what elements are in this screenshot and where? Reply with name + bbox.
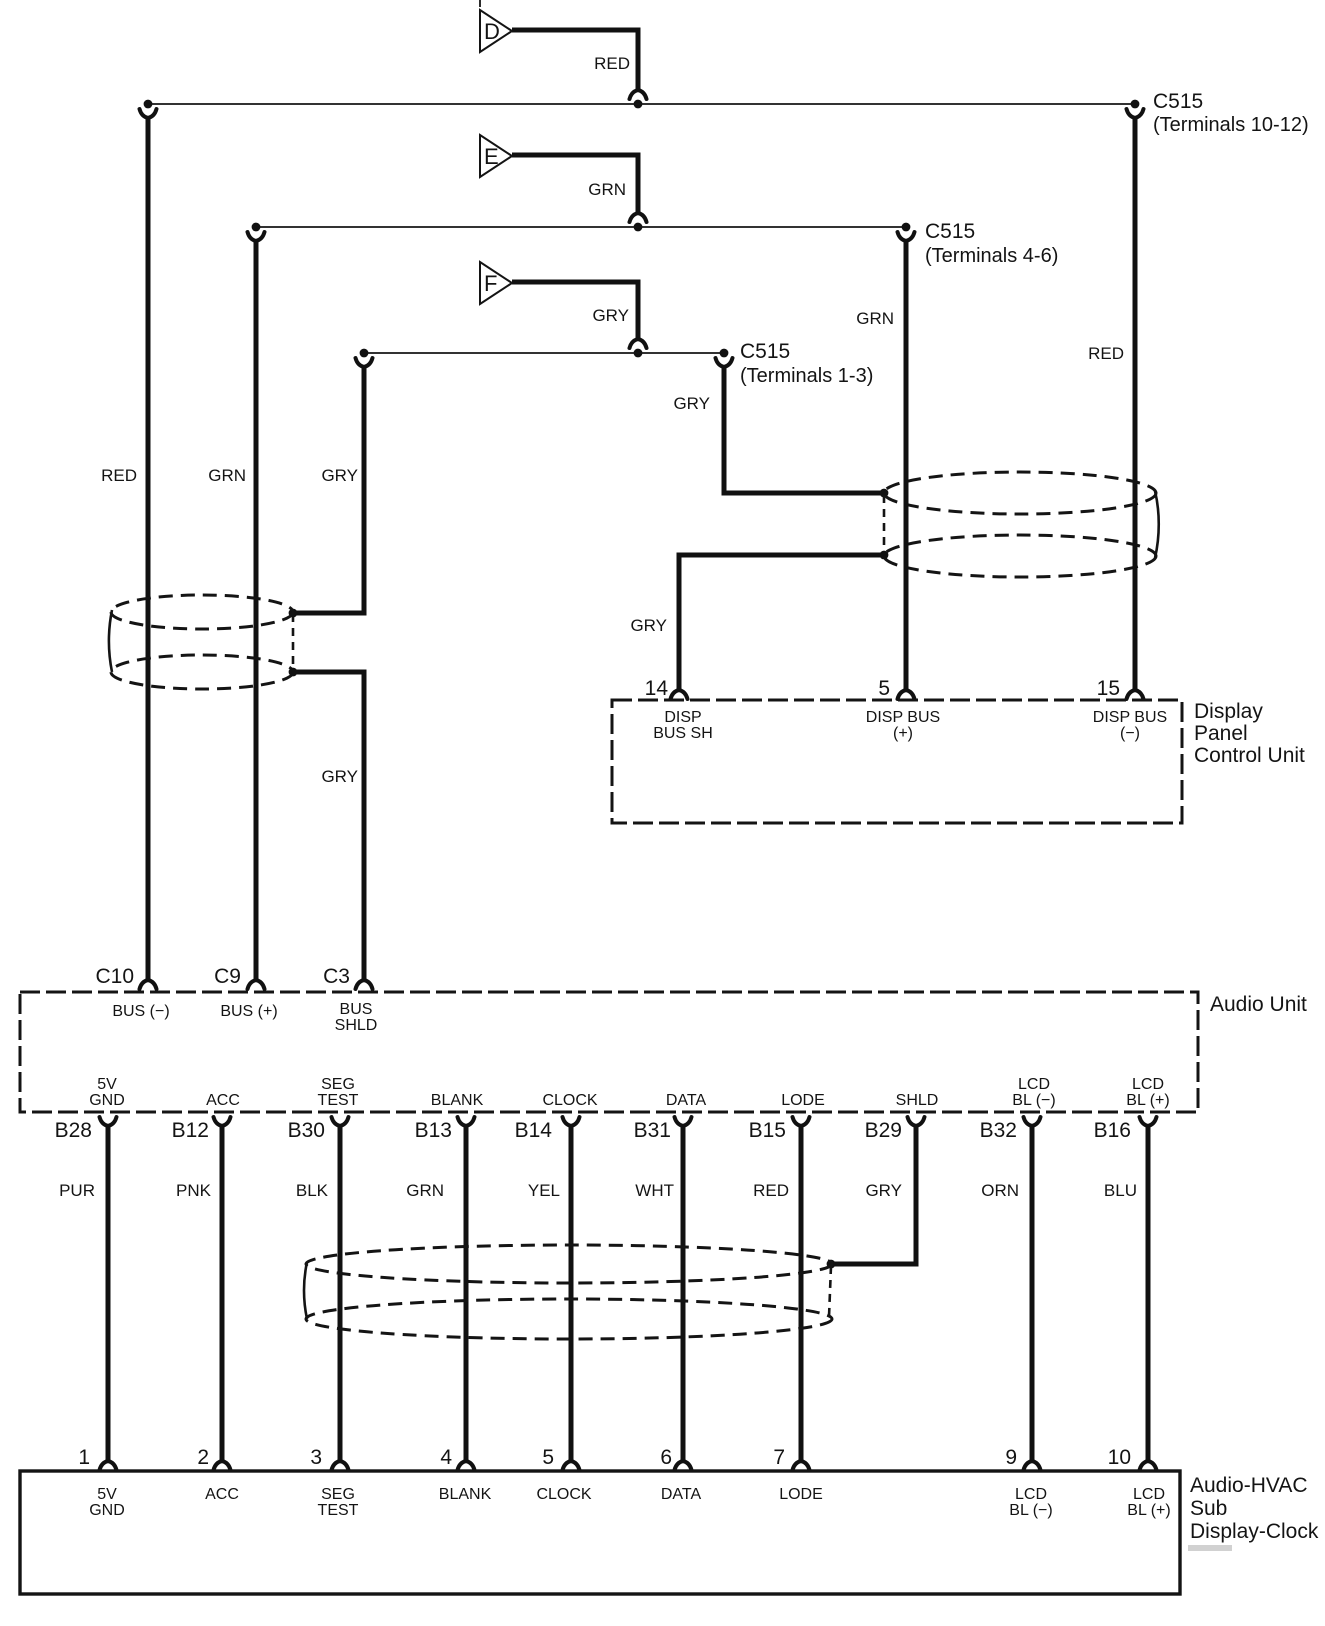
svg-text:DISP BUS: DISP BUS	[866, 709, 940, 726]
wire GRY from left shield to audio unit C3	[293, 672, 364, 979]
junction dot at left shield top right	[289, 609, 298, 618]
shield symbol right: bottom ellipse	[884, 535, 1156, 577]
junction dot D on bus line 1	[634, 100, 643, 109]
terminal cup at pin 2	[214, 1461, 231, 1470]
pin label DISP BUS SH	[653, 709, 713, 742]
shield symbol right: top ellipse	[884, 472, 1156, 514]
svg-text:GRY: GRY	[630, 616, 667, 635]
terminal cup at B12	[214, 1117, 231, 1126]
terminal cup at B29	[908, 1117, 925, 1126]
terminal cup at end of F wire	[630, 339, 647, 348]
node dot left end of bus line 2	[252, 223, 261, 232]
svg-text:DATA: DATA	[661, 1486, 702, 1503]
wire GRN from bus line 2 to audio unit C9	[254, 242, 259, 979]
svg-text:LODE: LODE	[779, 1486, 823, 1503]
pin label BUS SHLD	[335, 1001, 378, 1034]
shield symbol lower: solid left cap	[304, 1262, 307, 1319]
terminal cup below left end of bus line 2	[248, 232, 265, 241]
terminal cup at C9 entry	[248, 980, 265, 989]
label C515 (Terminals 1-3)	[740, 340, 873, 387]
wire GRN from bus line 2 to display pin 5	[904, 242, 909, 689]
svg-text:ACC: ACC	[205, 1486, 239, 1503]
pin label LCD BL (-)	[1012, 1076, 1055, 1109]
svg-text:9: 9	[1005, 1446, 1017, 1469]
pin label 5V GND (lower)	[89, 1486, 125, 1519]
svg-text:LODE: LODE	[781, 1092, 825, 1109]
terminal cup at B13	[458, 1117, 475, 1126]
wire YEL from B14 to pin 5	[569, 1126, 574, 1460]
svg-text:SHLD: SHLD	[896, 1092, 939, 1109]
svg-text:Audio-HVAC: Audio-HVAC	[1190, 1474, 1308, 1497]
svg-text:B32: B32	[980, 1119, 1017, 1142]
svg-text:TEST: TEST	[318, 1502, 359, 1519]
off-page arrow connector D	[480, 10, 512, 52]
terminal cup at end of E wire	[630, 213, 647, 222]
wire BLK from B30 to pin 3	[338, 1126, 343, 1460]
svg-text:RED: RED	[1088, 344, 1124, 363]
pin label DISP BUS (+)	[866, 709, 940, 742]
svg-text:Sub: Sub	[1190, 1497, 1227, 1520]
svg-text:ACC: ACC	[206, 1092, 240, 1109]
svg-text:SEG: SEG	[321, 1486, 355, 1503]
svg-text:LCD: LCD	[1015, 1486, 1047, 1503]
svg-text:B31: B31	[634, 1119, 671, 1142]
label C515 (Terminals 4-6)	[925, 220, 1058, 267]
terminal cup at pin 7	[793, 1461, 810, 1470]
svg-text:GRY: GRY	[321, 466, 358, 485]
svg-text:F: F	[484, 271, 497, 296]
svg-text:BLK: BLK	[296, 1181, 329, 1200]
node dot left end of bus line 1	[144, 100, 153, 109]
wire GRY from bus line 3 right end to right shield	[724, 368, 884, 493]
shield symbol lower: bottom ellipse	[306, 1299, 832, 1339]
svg-text:BUS (−): BUS (−)	[112, 1003, 169, 1020]
terminal cup at pin 1	[100, 1461, 117, 1470]
svg-text:GND: GND	[89, 1092, 125, 1109]
svg-text:GRN: GRN	[208, 466, 246, 485]
svg-text:Audio Unit: Audio Unit	[1210, 993, 1307, 1016]
svg-text:(Terminals 1-3): (Terminals 1-3)	[740, 365, 873, 387]
svg-text:ORN: ORN	[981, 1181, 1019, 1200]
svg-text:GRY: GRY	[592, 306, 629, 325]
svg-text:5V: 5V	[97, 1076, 117, 1093]
svg-text:5: 5	[878, 677, 890, 700]
svg-text:Display: Display	[1194, 700, 1263, 723]
svg-text:TEST: TEST	[318, 1092, 359, 1109]
pin label LCD BL (+)	[1126, 1076, 1169, 1109]
terminal cup at B31	[675, 1117, 692, 1126]
wire ORN from B32 to pin 9	[1030, 1126, 1035, 1460]
svg-text:CLOCK: CLOCK	[542, 1092, 597, 1109]
wire RED from bus line 1 to audio unit C10	[146, 119, 151, 979]
wire PNK from B12 to pin 2	[220, 1126, 225, 1460]
svg-text:5: 5	[542, 1446, 554, 1469]
svg-text:GRN: GRN	[856, 309, 894, 328]
pin label SEG TEST (lower)	[318, 1486, 359, 1519]
svg-text:BUS (+): BUS (+)	[220, 1003, 277, 1020]
svg-text:BL (+): BL (+)	[1127, 1502, 1170, 1519]
svg-text:B13: B13	[415, 1119, 452, 1142]
svg-text:BLANK: BLANK	[439, 1486, 492, 1503]
svg-text:(Terminals 4-6): (Terminals 4-6)	[925, 245, 1058, 267]
svg-text:DISP: DISP	[664, 709, 701, 726]
off-page arrow connector E	[480, 135, 512, 177]
wire GRY from arrow F	[512, 282, 638, 338]
terminal cup at pin 5	[563, 1461, 580, 1470]
terminal cup at pin 9	[1024, 1461, 1041, 1470]
svg-text:BL (−): BL (−)	[1009, 1502, 1052, 1519]
shield symbol left: top ellipse	[111, 595, 293, 629]
svg-text:C515: C515	[925, 220, 975, 243]
wire GRN from B13 to pin 4	[464, 1126, 469, 1460]
wire RED from arrow D	[512, 30, 638, 89]
stub line above arrow D	[479, 0, 481, 7]
pin label SEG TEST	[318, 1076, 359, 1109]
svg-text:BL (+): BL (+)	[1126, 1092, 1169, 1109]
wire WHT from B31 to pin 6	[681, 1126, 686, 1460]
svg-text:(Terminals 10-12): (Terminals 10-12)	[1153, 114, 1309, 136]
svg-text:PNK: PNK	[176, 1181, 212, 1200]
svg-text:LCD: LCD	[1018, 1076, 1050, 1093]
off-page arrow connector F	[480, 262, 512, 304]
svg-text:C10: C10	[95, 965, 134, 988]
svg-text:WHT: WHT	[635, 1181, 674, 1200]
terminal cup at B14	[563, 1117, 580, 1126]
svg-text:2: 2	[197, 1446, 209, 1469]
svg-text:14: 14	[645, 677, 669, 700]
bus line 2 (C515 terminals 4-6)	[256, 226, 906, 228]
node dot right end of bus line 1	[1131, 100, 1140, 109]
svg-text:B28: B28	[55, 1119, 92, 1142]
terminal cup at display pin 14	[671, 690, 688, 699]
svg-text:15: 15	[1097, 677, 1120, 700]
svg-text:BLANK: BLANK	[431, 1092, 484, 1109]
terminal cup at display pin 5	[898, 690, 915, 699]
svg-text:C515: C515	[1153, 90, 1203, 113]
terminal cup at B16	[1140, 1117, 1157, 1126]
wire PUR from B28 to pin 1	[106, 1126, 111, 1460]
box name Display Panel Control Unit	[1194, 700, 1305, 767]
pin label 5V GND	[89, 1076, 125, 1109]
Audio-HVAC Sub Display-Clock box	[20, 1471, 1180, 1594]
svg-text:RED: RED	[753, 1181, 789, 1200]
shield symbol left: bottom ellipse	[111, 655, 293, 689]
svg-text:LCD: LCD	[1133, 1486, 1165, 1503]
bus line 1 (C515 terminals 10-12)	[148, 103, 1135, 105]
svg-text:DATA: DATA	[666, 1092, 707, 1109]
svg-text:BLU: BLU	[1104, 1181, 1137, 1200]
svg-text:B29: B29	[865, 1119, 902, 1142]
junction dot F on bus line 3	[634, 349, 643, 358]
svg-text:BUS: BUS	[340, 1001, 373, 1018]
svg-text:5V: 5V	[97, 1486, 117, 1503]
svg-text:SHLD: SHLD	[335, 1017, 378, 1034]
svg-text:GRN: GRN	[406, 1181, 444, 1200]
svg-text:GRY: GRY	[321, 767, 358, 786]
terminal cup at B30	[332, 1117, 349, 1126]
pin label DISP BUS (-)	[1093, 709, 1167, 742]
junction dot at lower shield right	[827, 1260, 836, 1269]
svg-text:B15: B15	[749, 1119, 786, 1142]
svg-text:RED: RED	[101, 466, 137, 485]
shield symbol left: solid left cap	[109, 610, 112, 672]
svg-text:4: 4	[440, 1446, 452, 1469]
node dot left end of bus line 3	[360, 349, 369, 358]
box name Audio-HVAC Sub Display-Clock	[1190, 1474, 1319, 1543]
terminal cup at B28	[100, 1117, 117, 1126]
node dot right end of bus line 3	[720, 349, 729, 358]
shield symbol lower: dashed right edge	[829, 1266, 831, 1317]
svg-text:B12: B12	[172, 1119, 209, 1142]
terminal cup at C3 entry	[356, 980, 373, 989]
shield symbol right: solid right cap	[1155, 491, 1159, 558]
svg-text:B30: B30	[288, 1119, 325, 1142]
svg-text:CLOCK: CLOCK	[536, 1486, 591, 1503]
junction dot at left shield bottom right	[289, 668, 298, 677]
svg-text:RED: RED	[594, 54, 630, 73]
svg-text:Panel: Panel	[1194, 722, 1248, 745]
wire GRY from B29 to lower shield	[831, 1126, 916, 1264]
wire RED from bus line 1 to display pin 15	[1133, 119, 1138, 689]
faint scan artifact under Display-Clock	[1188, 1545, 1232, 1551]
Display Panel Control Unit box	[612, 700, 1182, 823]
svg-text:YEL: YEL	[528, 1181, 560, 1200]
terminal cup below left end of bus line 3	[356, 358, 373, 367]
svg-text:10: 10	[1108, 1446, 1131, 1469]
svg-text:GRY: GRY	[865, 1181, 902, 1200]
svg-text:1: 1	[78, 1446, 90, 1469]
terminal cup below right end of bus line 1	[1127, 109, 1144, 118]
junction dot at right shield top left	[880, 489, 889, 498]
svg-text:GND: GND	[89, 1502, 125, 1519]
shield symbol left: dashed right edge	[292, 614, 295, 671]
terminal cup below right end of bus line 2	[898, 232, 915, 241]
shield symbol right: dashed left edge	[883, 495, 886, 553]
terminal cup below right end of bus line 3	[716, 358, 733, 367]
svg-text:D: D	[484, 19, 500, 44]
wire GRN from arrow E	[512, 155, 638, 212]
svg-text:C9: C9	[214, 965, 241, 988]
junction dot E on bus line 2	[634, 223, 643, 232]
svg-text:SEG: SEG	[321, 1076, 355, 1093]
pin label LCD BL (-) lower	[1009, 1486, 1052, 1519]
svg-text:BUS SH: BUS SH	[653, 725, 713, 742]
svg-text:DISP BUS: DISP BUS	[1093, 709, 1167, 726]
node dot right end of bus line 2	[902, 223, 911, 232]
svg-text:(+): (+)	[893, 725, 913, 742]
terminal cup at pin 4	[458, 1461, 475, 1470]
terminal cup at pin 10	[1140, 1461, 1157, 1470]
terminal cup at B32	[1024, 1117, 1041, 1126]
terminal cup at display pin 15	[1127, 690, 1144, 699]
svg-text:LCD: LCD	[1132, 1076, 1164, 1093]
svg-text:Control Unit: Control Unit	[1194, 744, 1305, 767]
svg-text:B16: B16	[1094, 1119, 1131, 1142]
svg-text:7: 7	[773, 1446, 785, 1469]
svg-text:C515: C515	[740, 340, 790, 363]
wire RED from B15 to pin 7	[799, 1126, 804, 1460]
terminal cup at end of D wire	[630, 90, 647, 99]
svg-text:C3: C3	[323, 965, 350, 988]
svg-text:6: 6	[660, 1446, 672, 1469]
terminal cup at pin 6	[675, 1461, 692, 1470]
svg-text:(−): (−)	[1120, 725, 1140, 742]
svg-text:B14: B14	[515, 1119, 553, 1142]
terminal cup at pin 3	[332, 1461, 349, 1470]
svg-text:E: E	[484, 144, 499, 169]
terminal cup at B15	[793, 1117, 810, 1126]
label C515 (Terminals 10-12)	[1153, 90, 1309, 136]
wire GRY from bus line 3 to left shield top	[295, 368, 364, 613]
svg-text:GRY: GRY	[673, 394, 710, 413]
wire BLU from B16 to pin 10	[1146, 1126, 1151, 1460]
Audio Unit box	[20, 992, 1198, 1112]
pin label LCD BL (+) lower	[1127, 1486, 1170, 1519]
svg-text:GRN: GRN	[588, 180, 626, 199]
bus line 3 (C515 terminals 1-3)	[364, 352, 724, 354]
junction dot at right shield bottom left	[880, 551, 889, 560]
terminal cup below left end of bus line 1	[140, 109, 157, 118]
terminal cup at C10 entry	[140, 980, 157, 989]
svg-text:PUR: PUR	[59, 1181, 95, 1200]
svg-text:BL (−): BL (−)	[1012, 1092, 1055, 1109]
svg-text:3: 3	[310, 1446, 322, 1469]
shield symbol lower: top ellipse	[306, 1245, 832, 1283]
svg-text:Display-Clock: Display-Clock	[1190, 1520, 1319, 1543]
wire GRY from right shield to display pin 14	[679, 555, 884, 689]
